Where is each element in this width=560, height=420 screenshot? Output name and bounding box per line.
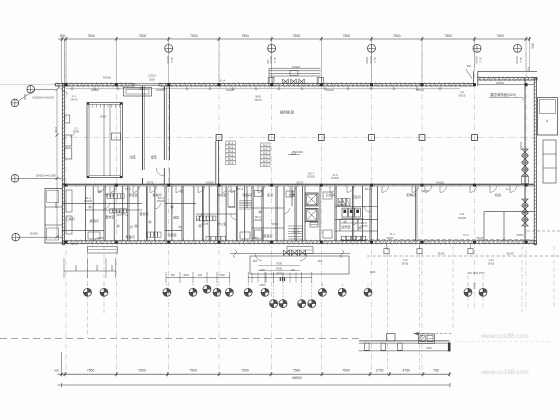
canopy dashed leader [414, 333, 453, 335]
mid stair rungs [239, 200, 252, 202]
svg-text:7500: 7500 [393, 34, 401, 38]
svg-text:值班室: 值班室 [263, 233, 272, 238]
svg-text:DN15 h=0.030: DN15 h=0.030 [36, 174, 56, 178]
dampers above roof wall [283, 79, 288, 84]
svg-text:1500: 1500 [95, 265, 99, 271]
left vertical dim line [56, 89, 58, 237]
svg-text:FL-2: FL-2 [463, 233, 469, 237]
stem lower bubble 4 [311, 275, 313, 300]
svg-text:DN15: DN15 [488, 262, 495, 265]
svg-text:400: 400 [527, 67, 530, 72]
svg-text:7500: 7500 [293, 369, 301, 373]
elevator pit detail [310, 222, 318, 227]
svg-text:JL-1: JL-1 [373, 57, 377, 63]
parapet chamfer diagonal [466, 69, 472, 79]
valve on riser [522, 206, 528, 212]
faint reference line at far left [0, 83, 55, 85]
left leader Def10 [36, 88, 55, 90]
svg-text:DN100: DN100 [84, 199, 93, 203]
elevator shaft 1 [305, 193, 318, 206]
grid bubble bottom 6 [213, 288, 221, 296]
grid bubble lower 1 [270, 300, 278, 308]
svg-text:DN300: DN300 [292, 65, 301, 69]
central axis line [62, 137, 534, 139]
svg-text:7500: 7500 [87, 369, 95, 373]
open column squares on centerline [216, 135, 222, 141]
svg-text:PL-2: PL-2 [228, 162, 234, 165]
svg-text:DN100: DN100 [416, 88, 425, 92]
vertical grid axis lines [65, 53, 67, 375]
canopy box 1 [386, 334, 395, 341]
grid bubble top 1 [165, 44, 173, 52]
riser stack labels [261, 143, 271, 147]
grid bubble lower 3 [298, 300, 306, 308]
svg-text:DN100: DN100 [458, 217, 466, 220]
top wall window [134, 83, 159, 85]
svg-text:工具间: 工具间 [65, 216, 74, 221]
svg-text:DN70: DN70 [166, 56, 170, 64]
faint service dashes to right [455, 340, 552, 342]
svg-text:建空调系统(N20): 建空调系统(N20) [490, 92, 515, 97]
grid bubble bottom 10 [318, 288, 326, 296]
svg-text:DN100: DN100 [496, 81, 505, 85]
counter lines [341, 218, 364, 220]
svg-text:2000: 2000 [149, 78, 155, 82]
svg-text:4-11: 4-11 [460, 213, 465, 216]
grid bubble lower 2 [279, 300, 287, 308]
svg-text:DN70: DN70 [71, 97, 78, 101]
svg-text:DN50: DN50 [473, 283, 476, 290]
porch inner dims [258, 265, 300, 267]
svg-text:DN50: DN50 [97, 236, 104, 240]
grid bubble top 3 [368, 44, 376, 52]
grid bubble left 1 [27, 86, 35, 94]
svg-text:办公室: 办公室 [217, 221, 226, 226]
svg-text:DN100: DN100 [331, 177, 339, 180]
bottom dimension line 2 [58, 384, 451, 386]
svg-text:DN50: DN50 [517, 233, 524, 237]
svg-text:药品间: 药品间 [242, 192, 251, 197]
svg-text:DN70: DN70 [255, 98, 262, 102]
svg-text:DN75: DN75 [117, 213, 124, 217]
break symbols on porch line [234, 250, 237, 258]
svg-text:DN50: DN50 [387, 236, 394, 240]
svg-text:DN50: DN50 [252, 236, 259, 240]
svg-text:DN15: DN15 [459, 93, 466, 97]
svg-text:DN50: DN50 [272, 222, 279, 226]
parapet line right section [478, 70, 537, 72]
interior wall A (x=142.5) [142, 86, 144, 170]
left porch [88, 247, 118, 254]
svg-text:DN100: DN100 [307, 176, 315, 179]
tank corner dots [87, 103, 89, 105]
svg-text:68500: 68500 [292, 376, 302, 380]
building left wall [62, 84, 64, 245]
svg-text:JL-1: JL-1 [519, 57, 523, 63]
svg-text:JL-1: JL-1 [505, 187, 511, 191]
svg-text:DN50: DN50 [73, 131, 80, 134]
svg-text:JL-1: JL-1 [170, 57, 174, 63]
svg-text:DN70: DN70 [422, 189, 429, 193]
svg-text:DN15: DN15 [365, 57, 368, 64]
svg-text:7500: 7500 [139, 34, 147, 38]
sink row [341, 236, 345, 240]
svg-text:走道: 走道 [267, 192, 273, 197]
left annex room [45, 189, 62, 244]
top wall jog verticals [473, 71, 475, 86]
svg-text:PL-3: PL-3 [125, 187, 131, 191]
floor drains [89, 206, 91, 208]
stem lower bubble 3 [301, 275, 303, 300]
svg-text:3000: 3000 [276, 267, 283, 271]
valve on riser [522, 170, 528, 176]
svg-text:更衣室: 更衣室 [105, 214, 114, 219]
svg-text:DN100 h=0.030: DN100 h=0.030 [32, 96, 53, 100]
valve on riser [522, 220, 528, 226]
svg-text:4750: 4750 [402, 369, 410, 373]
svg-text:500 1500 1750: 500 1500 1750 [468, 272, 485, 275]
svg-text:8100: 8100 [54, 202, 58, 209]
building top wall (right of window) [159, 84, 474, 86]
urinal cluster [338, 199, 342, 206]
grid bubble left 2 [11, 99, 19, 107]
grid bubble bottom 13 [464, 288, 472, 296]
site road dashed line [0, 338, 359, 340]
grid bubble top 2 [268, 44, 276, 52]
svg-text:冷库: 冷库 [129, 154, 136, 159]
svg-text:DN150: DN150 [519, 142, 523, 151]
grid bubble top 4 [473, 44, 481, 52]
svg-text:4-4: 4-4 [460, 90, 464, 94]
svg-text:休息室: 休息室 [105, 192, 114, 197]
svg-text:7500: 7500 [190, 34, 198, 38]
stair rungs next to elevators [288, 225, 303, 227]
supply duct to axis 6 [269, 67, 321, 69]
valve on riser [522, 163, 528, 169]
svg-text:PL-2: PL-2 [228, 146, 234, 149]
inner wall line right section [478, 84, 534, 86]
svg-text:100: 100 [198, 274, 203, 277]
svg-text:600: 600 [291, 269, 296, 272]
svg-text:500: 500 [266, 60, 269, 65]
svg-text:DN100: DN100 [226, 88, 235, 92]
svg-text:2800: 2800 [276, 272, 283, 276]
svg-text:DN100: DN100 [436, 181, 445, 185]
svg-text:DN25: DN25 [507, 252, 514, 256]
svg-text:仓库: 仓库 [150, 154, 157, 159]
pipe under bottom wall inside [340, 239, 533, 241]
svg-text:7500: 7500 [444, 34, 452, 38]
svg-text:7500: 7500 [342, 369, 350, 373]
grid bubble bottom 14 [479, 288, 487, 296]
grid bubble bottom 3 [163, 288, 171, 296]
svg-text:750: 750 [433, 369, 439, 373]
svg-text:DN100: DN100 [326, 88, 335, 92]
svg-text:7500: 7500 [138, 369, 146, 373]
svg-text:DN100: DN100 [337, 203, 346, 207]
svg-text:PL-2: PL-2 [228, 142, 234, 145]
building top wall (left of window) [55, 84, 134, 86]
wall tick marks [57, 82, 59, 87]
svg-text:DN75: DN75 [293, 230, 300, 234]
svg-text:DN70: DN70 [71, 243, 78, 246]
svg-text:DN100: DN100 [254, 218, 263, 222]
svg-text:卫生间: 卫生间 [325, 192, 334, 197]
svg-text:2500: 2500 [426, 347, 432, 350]
svg-text:3600: 3600 [183, 274, 189, 277]
svg-text:JL-6: JL-6 [263, 164, 268, 167]
svg-text:7200: 7200 [54, 127, 58, 134]
grid bubble bottom 7 [225, 288, 233, 296]
svg-text:化验室: 化验室 [217, 192, 226, 197]
svg-text:浴室: 浴室 [173, 215, 179, 220]
svg-text:JL-6: JL-6 [263, 152, 268, 155]
canopy beam [359, 340, 450, 342]
valve on riser [522, 149, 528, 155]
tank top dashes [88, 105, 90, 108]
svg-text:(净): (净) [178, 225, 182, 229]
sub-room dividers [92, 203, 94, 210]
svg-text:DN25: DN25 [30, 232, 38, 236]
door bowties on porch line [284, 250, 290, 255]
canopy posts [365, 343, 370, 350]
svg-text:7500: 7500 [293, 34, 301, 38]
top grid riser lines [65, 39, 67, 84]
svg-text:JL-1: JL-1 [479, 57, 483, 63]
canopy equipment cluster [418, 334, 434, 344]
building top wall right section [478, 78, 537, 80]
svg-text:www.co188.com: www.co188.com [480, 369, 528, 376]
svg-text:DN70: DN70 [477, 236, 484, 240]
svg-text:JL-6: JL-6 [263, 160, 268, 163]
stem lower bubble 1 [273, 275, 275, 300]
grid bubble bottom 5 [203, 285, 211, 293]
grid bubble lower 4 [308, 300, 316, 308]
lower grid bubbles row 1 [87, 284, 89, 288]
svg-text:7500: 7500 [87, 34, 95, 38]
svg-text:DN15: DN15 [402, 262, 409, 265]
svg-text:7000: 7000 [276, 262, 283, 266]
svg-text:DN50: DN50 [100, 116, 107, 119]
valve on riser [522, 213, 528, 219]
grid bubble bottom 8 [244, 288, 252, 296]
equipment below window [124, 87, 152, 96]
svg-text:7500: 7500 [343, 34, 351, 38]
svg-text:1-1: 1-1 [72, 94, 76, 98]
valve on riser [522, 156, 528, 162]
svg-text:盥洗室: 盥洗室 [341, 224, 350, 229]
bottom dimension line 1 [58, 373, 451, 375]
svg-text:DN70: DN70 [515, 56, 519, 64]
svg-text:WL-2: WL-2 [365, 187, 372, 191]
interior door arcs in band [104, 203, 110, 209]
grid bubble left 4 [12, 233, 20, 241]
grid bubble bottom 12 [364, 288, 372, 296]
auxiliary vertical leaders below building [87, 246, 89, 338]
corner diagonal [57, 86, 68, 94]
grid bubble top 5 [514, 44, 522, 52]
interior wall B (x=165.2, shaft triple line) [163, 86, 165, 160]
lower dim riser group right [248, 277, 312, 279]
svg-text:JL-6: JL-6 [263, 148, 268, 151]
svg-text:换鞋间: 换鞋间 [89, 218, 98, 223]
svg-text:7500: 7500 [242, 34, 250, 38]
svg-text:配电间: 配电间 [406, 192, 415, 197]
svg-text:7500: 7500 [496, 34, 504, 38]
svg-text:1500: 1500 [219, 274, 225, 277]
left leader Def25 [20, 236, 63, 238]
right annex room [538, 98, 558, 136]
axis stub above dim line [61, 352, 63, 375]
top dimension line [58, 38, 530, 40]
stem lower bubble 2 [282, 275, 284, 300]
svg-text:DN100: DN100 [157, 199, 166, 203]
svg-text:DN70: DN70 [475, 56, 479, 64]
svg-text:C2515: C2515 [148, 74, 156, 78]
grid bubble bottom 4 [189, 288, 197, 296]
door swing arcs [98, 186, 105, 193]
svg-text:JL-1: JL-1 [273, 57, 277, 63]
svg-text:900: 900 [318, 259, 323, 263]
svg-text:JL-6: JL-6 [263, 144, 268, 147]
svg-text:化验室: 化验室 [167, 232, 176, 237]
duct left riser cluster [268, 77, 274, 83]
svg-text:500: 500 [171, 274, 176, 277]
svg-text:TL-1: TL-1 [389, 232, 395, 236]
svg-text:500: 500 [467, 65, 472, 68]
equipment tank left hall [87, 103, 123, 178]
svg-text:楼梯: 楼梯 [289, 192, 295, 197]
svg-text:XL-4: XL-4 [219, 78, 225, 82]
interior wall C (x=217) lower half [215, 141, 217, 184]
room band horizontal sub-walls [62, 202, 142, 204]
svg-text:DN75: DN75 [361, 224, 368, 228]
left leader Def13 [19, 177, 63, 179]
valve on riser [522, 199, 528, 205]
svg-text:DN100: DN100 [103, 76, 112, 80]
riser stack 2 [226, 141, 236, 145]
svg-text:2400: 2400 [110, 265, 114, 271]
lower dim riser group left [64, 270, 116, 272]
svg-text:WL-5: WL-5 [237, 187, 244, 191]
svg-text:DN75: DN75 [202, 222, 209, 226]
riser cluster at axis 6 [317, 78, 323, 84]
structural columns [65, 83, 68, 86]
svg-text:PL-2: PL-2 [228, 150, 234, 153]
grid bubble bottom 2 [100, 288, 108, 296]
svg-text:1430: 1430 [370, 270, 376, 274]
svg-text:机房: 机房 [495, 192, 501, 197]
bottom dashed service line [367, 255, 560, 257]
right riser pipe [524, 78, 526, 241]
svg-text:1200: 1200 [259, 269, 265, 272]
svg-text:DN70: DN70 [297, 181, 304, 185]
roof fan box [290, 71, 298, 76]
entrance porch outline [230, 253, 350, 255]
lower dim riser group mid [166, 277, 230, 279]
building bottom wall [62, 241, 536, 244]
svg-text:PL-2: PL-2 [228, 158, 234, 161]
svg-text:准备间: 准备间 [125, 234, 134, 239]
small boxes on left wall [65, 135, 72, 146]
elevator shaft 2 [305, 209, 318, 222]
svg-text:www.co188.com: www.co188.com [480, 333, 528, 340]
room band partition walls [84, 186, 86, 241]
band wall x=415.7 [415, 186, 417, 241]
dashed pipe to right edge [527, 230, 560, 232]
svg-text:DN70: DN70 [369, 56, 373, 64]
svg-text:DN100: DN100 [156, 88, 165, 92]
wash basins row mid [206, 236, 210, 241]
svg-text:300: 300 [60, 34, 66, 38]
sprinkler pipe under top wall [66, 88, 460, 90]
grid bubble bottom 1 [84, 288, 92, 296]
corridor partition wall [62, 183, 534, 185]
porch steps [287, 247, 313, 254]
svg-text:排风机房: 排风机房 [280, 110, 295, 115]
svg-text:300: 300 [54, 369, 59, 373]
svg-text:DN100: DN100 [91, 88, 100, 92]
grid bubble bottom 9 [261, 288, 269, 296]
svg-text:卫生间: 卫生间 [351, 194, 360, 199]
right lower annex strip [543, 140, 556, 183]
svg-text:7500: 7500 [189, 369, 197, 373]
svg-text:900: 900 [253, 259, 258, 263]
grid bubble bottom 11 [338, 288, 346, 296]
svg-text:2250: 2250 [259, 284, 265, 287]
canopy end post [448, 342, 451, 351]
grid bubble left 3 [11, 175, 19, 183]
svg-text:PL-2: PL-2 [228, 154, 234, 157]
benches and tables [66, 190, 72, 212]
svg-text:2750: 2750 [376, 369, 384, 373]
svg-text:JL-6: JL-6 [263, 156, 268, 159]
svg-text:2000: 2000 [74, 265, 78, 271]
svg-text:300: 300 [531, 43, 535, 49]
locker rows [107, 194, 110, 199]
svg-text:值班室: 值班室 [128, 192, 137, 197]
svg-text:7500: 7500 [241, 369, 249, 373]
svg-text:(污): (污) [129, 225, 133, 229]
svg-text:更衣室: 更衣室 [139, 211, 148, 216]
toilet stalls [342, 208, 348, 217]
building right wall [534, 78, 536, 245]
svg-text:3600: 3600 [23, 94, 27, 101]
svg-text:DN25: DN25 [438, 252, 445, 256]
svg-text:DN50: DN50 [229, 205, 236, 209]
